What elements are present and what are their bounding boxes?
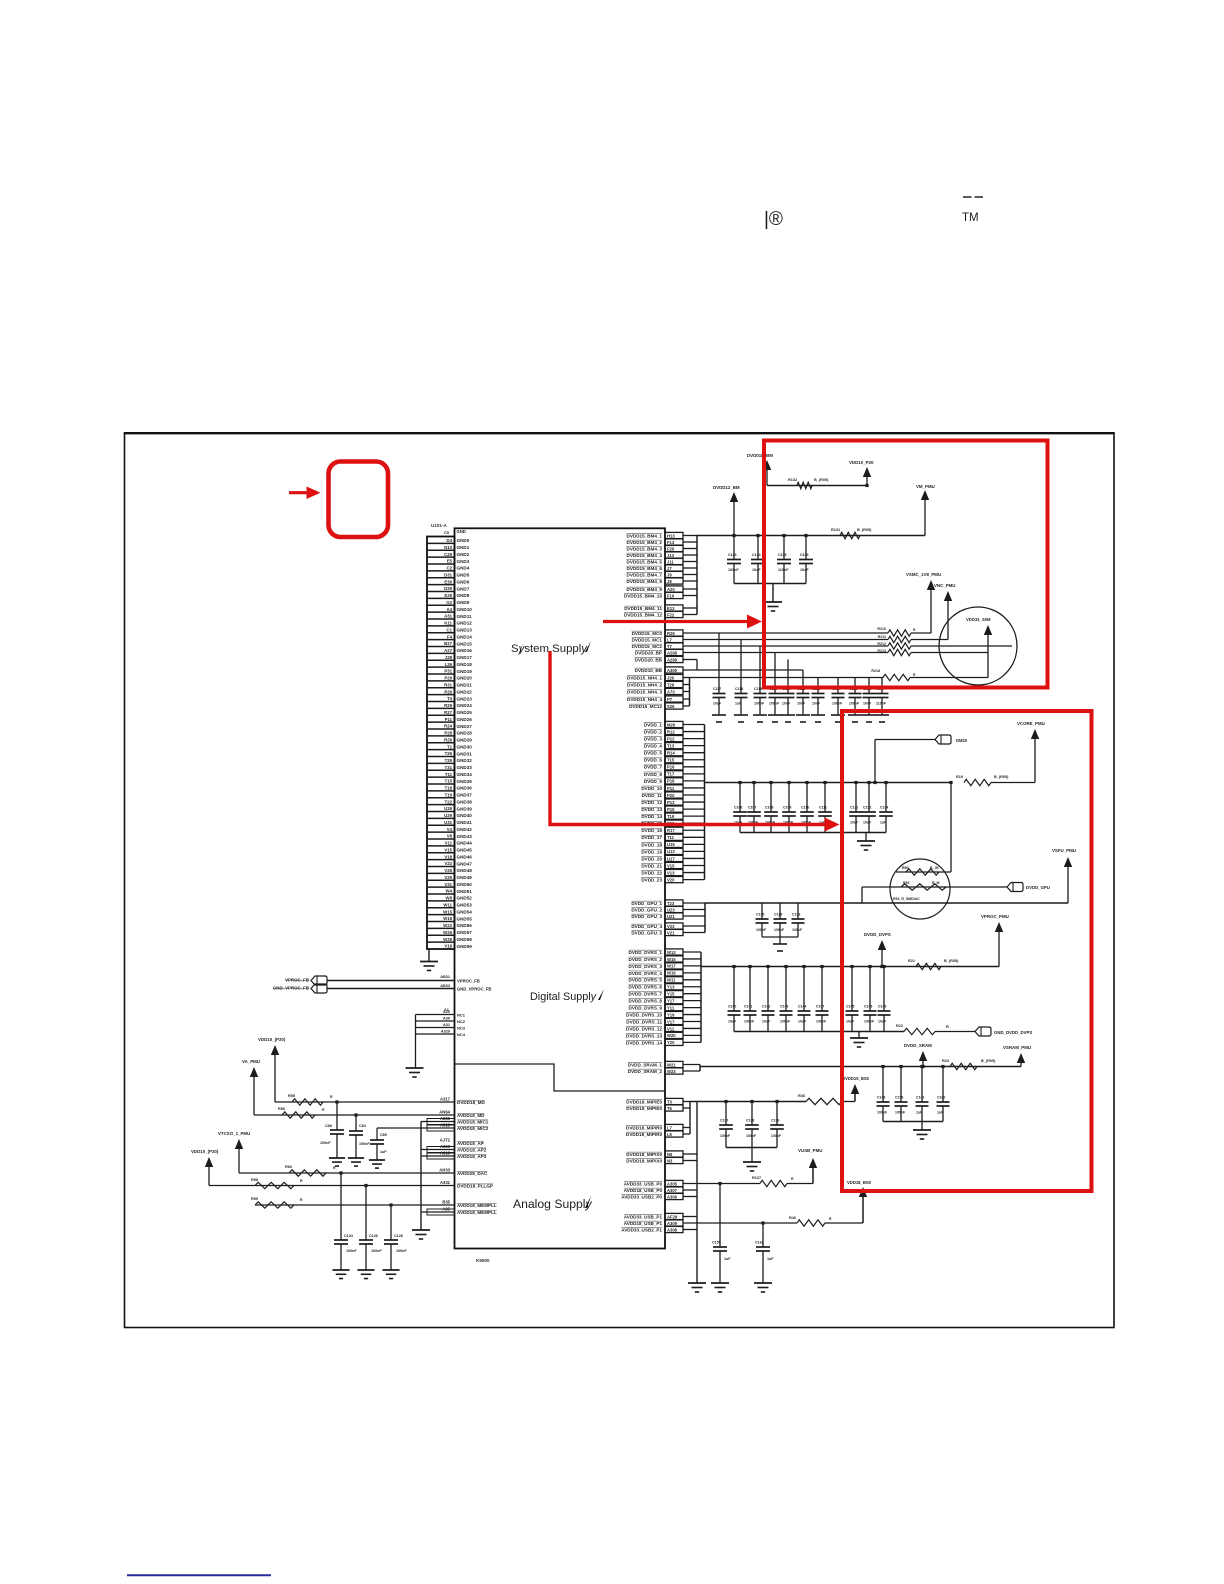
- svg-text:P11: P11: [667, 786, 675, 791]
- svg-text:NC2: NC2: [457, 1019, 466, 1024]
- svg-text:R55: R55: [288, 1094, 295, 1098]
- wire DVDD15_MC0 net: [683, 632, 888, 634]
- svg-text:T15: T15: [667, 758, 675, 763]
- red annotation polyline from System Supply into box 2: [550, 651, 840, 832]
- capacitor C123: [812, 678, 825, 716]
- svg-text:D31: D31: [444, 572, 452, 577]
- svg-text:A305: A305: [667, 1181, 678, 1186]
- svg-text:DVDD18_MIPIE0: DVDD18_MIPIE0: [626, 1106, 662, 1111]
- svg-text:GND4: GND4: [457, 566, 470, 571]
- svg-text:C124: C124: [344, 1234, 354, 1238]
- wire R36 to BS0 arrow: [842, 1089, 855, 1102]
- svg-text:GND18: GND18: [457, 662, 473, 667]
- svg-text:DVDD_DVRS_9: DVDD_DVRS_9: [629, 1006, 663, 1011]
- svg-text:C89: C89: [380, 1133, 387, 1137]
- svg-text:10uF: 10uF: [846, 1020, 855, 1024]
- svg-text:R210: R210: [877, 627, 886, 631]
- capacitor C109: [782, 783, 796, 833]
- wire DVDD_GPU bus: [705, 902, 1068, 904]
- schematic frame border: [124, 433, 1115, 1328]
- svg-text:VDD10_P20: VDD10_P20: [849, 460, 874, 465]
- svg-text:R36: R36: [798, 1094, 805, 1098]
- svg-text:D4: D4: [447, 538, 453, 543]
- svg-text:GND53: GND53: [457, 903, 473, 908]
- svg-text:C109: C109: [783, 806, 791, 810]
- svg-text:L5: L5: [667, 1132, 673, 1137]
- svg-text:DVDD_2: DVDD_2: [644, 729, 663, 734]
- svg-text:A30: A30: [443, 1017, 450, 1021]
- svg-text:VSFU_PMU: VSFU_PMU: [1052, 848, 1076, 853]
- op-amp U101-A main IC body: [455, 528, 666, 1248]
- svg-text:DVDD_4: DVDD_4: [644, 744, 663, 749]
- svg-text:AVDD18_MEMPLL: AVDD18_MEMPLL: [457, 1203, 497, 1208]
- svg-text:VTCXO_1_PMU: VTCXO_1_PMU: [218, 1131, 250, 1136]
- svg-text:100nF: 100nF: [744, 1020, 755, 1024]
- resistor R59: [251, 1197, 303, 1208]
- svg-text:100nF: 100nF: [816, 1020, 827, 1024]
- svg-text:T5: T5: [667, 1106, 673, 1111]
- svg-text:V15: V15: [667, 863, 675, 868]
- svg-text:C133: C133: [792, 913, 800, 917]
- svg-text:VPROC_FB: VPROC_FB: [285, 978, 309, 983]
- svg-text:GND15: GND15: [457, 641, 473, 646]
- svg-text:W17: W17: [667, 964, 676, 969]
- ground C162: [754, 1283, 772, 1292]
- svg-text:GND5: GND5: [457, 573, 470, 578]
- svg-text:DVDD15_BM4_12: DVDD15_BM4_12: [624, 612, 662, 617]
- svg-text:AVDD33_USB_P1: AVDD33_USB_P1: [624, 1214, 663, 1219]
- svg-text:Analog Supply: Analog Supply: [513, 1197, 593, 1211]
- junction dots left analog cluster: [335, 1100, 764, 1224]
- svg-text:E30: E30: [444, 579, 452, 584]
- wire bank E bottom rail: [734, 1032, 904, 1039]
- svg-text:DVDD18_MIPIR0: DVDD18_MIPIR0: [626, 1132, 662, 1137]
- svg-text:DVDD18_MIPIX0: DVDD18_MIPIX0: [626, 1152, 662, 1157]
- svg-text:R93: R93: [903, 881, 909, 885]
- net arrow DVD018_BM: [747, 453, 773, 486]
- svg-text:W11: W11: [667, 978, 676, 983]
- svg-text:DVDD15_NH4_4: DVDD15_NH4_4: [627, 697, 662, 702]
- svg-text:C84: C84: [359, 1124, 367, 1128]
- net arrow DVDD12_BM4: [713, 485, 740, 536]
- wire GND_VPROC_FB to IC pin AB33: [327, 984, 491, 992]
- capacitor C111: [818, 783, 832, 833]
- wire R210 to VSMC arrow: [911, 628, 931, 633]
- svg-text:GND11: GND11: [457, 614, 473, 619]
- svg-text:GND43: GND43: [457, 834, 473, 839]
- svg-text:1uF: 1uF: [735, 702, 742, 706]
- capacitor C125: [849, 678, 862, 716]
- ground bank F: [913, 1130, 931, 1139]
- ground C124: [332, 1270, 349, 1279]
- wire DVDD10_BB net: [683, 669, 803, 671]
- net arrow VSMC_1V8_PMU: [906, 572, 941, 633]
- svg-text:R59: R59: [251, 1197, 258, 1201]
- svg-text:DVDD_GPU: DVDD_GPU: [1026, 885, 1050, 890]
- net arrow VUSB_PMU: [798, 1148, 822, 1184]
- svg-text:GND22: GND22: [457, 689, 473, 694]
- capacitor C138: [745, 1102, 759, 1148]
- svg-text:A29: A29: [443, 1010, 450, 1014]
- svg-text:R90: R90: [902, 866, 908, 870]
- svg-text:GND0: GND0: [457, 538, 470, 543]
- wire VDD10 to PLLGP pin: [209, 1185, 455, 1187]
- svg-text:GND58: GND58: [457, 937, 473, 942]
- svg-text:V23: V23: [667, 924, 675, 929]
- svg-text:C141: C141: [744, 1005, 752, 1009]
- svg-text:100nF: 100nF: [346, 1249, 357, 1253]
- svg-text:C140: C140: [728, 1005, 736, 1009]
- svg-text:C141: C141: [916, 1096, 924, 1100]
- svg-text:A31: A31: [444, 614, 452, 619]
- wires NC1-NC4 pins: [416, 1010, 466, 1037]
- svg-text:L26: L26: [445, 662, 453, 667]
- ground for C119: [753, 715, 767, 722]
- capacitor C116: [799, 536, 813, 584]
- svg-text:VA_PMU: VA_PMU: [242, 1059, 260, 1064]
- red annotation box 1 top right: [764, 441, 1048, 688]
- ground for C125: [848, 715, 862, 722]
- label Analog Supply: [513, 1196, 593, 1211]
- svg-text:DVDD15_NH4_3: DVDD15_NH4_3: [627, 689, 662, 694]
- resistor R90: [902, 866, 939, 875]
- svg-text:NC1: NC1: [457, 1013, 466, 1018]
- svg-text:DVDD_DVRS_1: DVDD_DVRS_1: [629, 950, 663, 955]
- ground for C122: [796, 715, 810, 722]
- resistor R137: [752, 1176, 794, 1187]
- svg-text:AVDD18_AP: AVDD18_AP: [457, 1141, 484, 1146]
- svg-text:V21: V21: [667, 930, 675, 935]
- svg-text:C106: C106: [734, 806, 742, 810]
- capacitor C132: [862, 783, 876, 833]
- svg-text:R218: R218: [871, 669, 880, 673]
- svg-text:100nF: 100nF: [769, 702, 780, 706]
- svg-text:DVDD12_BM: DVDD12_BM: [713, 485, 740, 490]
- svg-text:100nF: 100nF: [774, 928, 785, 932]
- svg-text:R56: R56: [278, 1107, 285, 1111]
- wire analog collector to ground: [421, 1122, 455, 1231]
- resistor R19: [956, 775, 1009, 786]
- svg-text:W29: W29: [443, 937, 452, 942]
- svg-text:DVDD20_BP: DVDD20_BP: [635, 650, 662, 655]
- svg-text:P31: P31: [444, 669, 452, 674]
- svg-text:F22: F22: [667, 612, 675, 617]
- svg-text:C118: C118: [735, 687, 743, 691]
- svg-text:R29: R29: [444, 703, 452, 708]
- svg-text:GND8: GND8: [457, 593, 470, 598]
- svg-text:DVDD_14: DVDD_14: [641, 814, 662, 819]
- wire R211 to VNC arrow: [911, 639, 948, 641]
- svg-text:GND_DVDD_DVPS: GND_DVDD_DVPS: [994, 1030, 1032, 1035]
- svg-text:J9: J9: [667, 572, 672, 577]
- svg-text:GND7: GND7: [457, 586, 470, 591]
- svg-text:N3: N3: [667, 1158, 673, 1163]
- svg-text:DVDD_7: DVDD_7: [644, 765, 663, 770]
- svg-text:10nF: 10nF: [812, 702, 821, 706]
- svg-text:T19: T19: [445, 792, 453, 797]
- capacitor C126: [863, 678, 876, 716]
- red annotation rounded box: [329, 462, 389, 538]
- wire AVDD18_USB_P1 to resistor: [683, 1222, 797, 1224]
- svg-text:W15: W15: [443, 909, 452, 914]
- svg-text:P7: P7: [667, 697, 673, 702]
- svg-text:VM_PMU: VM_PMU: [916, 484, 935, 489]
- svg-text:P13: P13: [667, 800, 675, 805]
- svg-text:DVDD15_BM4_9: DVDD15_BM4_9: [627, 587, 663, 592]
- svg-text:C143: C143: [780, 1005, 788, 1009]
- net arrow VDD10_P20 lower: [191, 1149, 219, 1186]
- svg-text:DM20: DM20: [956, 738, 968, 743]
- resistor R60: [285, 1165, 338, 1176]
- svg-text:N10: N10: [444, 545, 452, 550]
- wire R19 node to R90: [896, 783, 951, 873]
- svg-text:A20: A20: [667, 587, 675, 592]
- svg-text:1uF: 1uF: [380, 1150, 387, 1154]
- IC section divider step: [455, 1064, 666, 1091]
- resistor R21: [908, 959, 959, 970]
- svg-text:100nF: 100nF: [895, 1111, 906, 1115]
- svg-text:GND6: GND6: [457, 579, 470, 584]
- svg-text:T31: T31: [445, 765, 453, 770]
- svg-text:GND3: GND3: [457, 559, 470, 564]
- svg-text:T13: T13: [667, 743, 675, 748]
- svg-text:DVDD_20: DVDD_20: [641, 856, 662, 861]
- wire SRAM bus: [700, 1066, 1021, 1068]
- svg-text:A31: A31: [443, 1023, 450, 1027]
- svg-text:GND26: GND26: [457, 717, 473, 722]
- capacitor C147: [816, 967, 829, 1032]
- svg-text:T11: T11: [445, 772, 453, 777]
- svg-text:T26: T26: [445, 751, 453, 756]
- svg-text:110nF: 110nF: [876, 702, 887, 706]
- capacitor C162: [937, 1067, 950, 1122]
- svg-text:L7: L7: [667, 1125, 673, 1130]
- svg-text:DVDD_13: DVDD_13: [641, 807, 662, 812]
- svg-text:Y13: Y13: [667, 985, 675, 990]
- svg-text:Y20: Y20: [667, 1040, 675, 1045]
- svg-text:A4: A4: [447, 607, 453, 612]
- wire NH4 collector: [683, 678, 690, 707]
- svg-text:R17: R17: [667, 828, 675, 833]
- svg-text:GND51: GND51: [457, 889, 473, 894]
- svg-text:C29: C29: [444, 552, 452, 557]
- trademark symbol (R): [764, 209, 783, 230]
- capacitor C89: [370, 1133, 387, 1160]
- IC right pins DVDD_DVRS_1..14: [626, 949, 701, 1046]
- IC right pins DVDD18_MIPI group: [626, 1098, 683, 1163]
- svg-text:GND46: GND46: [457, 854, 473, 859]
- capacitor C128 left: [384, 1205, 407, 1270]
- svg-text:B35: B35: [442, 1199, 450, 1204]
- wire R212 right: [911, 645, 1012, 647]
- svg-text:DVDD18_MIPIE0: DVDD18_MIPIE0: [626, 1099, 662, 1104]
- svg-text:S26: S26: [667, 704, 675, 709]
- ground for C117: [712, 715, 726, 722]
- svg-text:C162: C162: [755, 1241, 764, 1245]
- wire DVDD15_MC2 net: [683, 645, 888, 647]
- svg-text:W11: W11: [443, 902, 452, 907]
- svg-text:VPROC_FB: VPROC_FB: [457, 979, 480, 984]
- svg-text:R58: R58: [251, 1178, 258, 1182]
- svg-text:A306: A306: [667, 1194, 678, 1199]
- svg-text:C137: C137: [720, 1119, 728, 1123]
- svg-text:W20: W20: [667, 1033, 676, 1038]
- svg-text:B_(R05): B_(R05): [814, 478, 829, 482]
- net arrow VCORE_PMU: [1017, 721, 1045, 783]
- svg-text:100nF: 100nF: [720, 1134, 731, 1138]
- svg-text:AVDD18_MIC1: AVDD18_MIC1: [457, 1120, 489, 1125]
- svg-text:GND30: GND30: [457, 744, 473, 749]
- svg-text:DVDD_DVRS_6: DVDD_DVRS_6: [629, 985, 663, 990]
- svg-text:DVDD_SRAM_2: DVDD_SRAM_2: [628, 1069, 663, 1074]
- svg-text:DVDD15_BM4_5: DVDD15_BM4_5: [627, 559, 663, 564]
- svg-text:DVDD_DVRS_11: DVDD_DVRS_11: [626, 1019, 662, 1024]
- svg-text:DVDD15_BM4_7: DVDD15_BM4_7: [627, 572, 663, 577]
- svg-text:GND56: GND56: [457, 923, 473, 928]
- capacitor C141: [744, 967, 757, 1032]
- svg-text:GND54: GND54: [457, 909, 473, 914]
- svg-text:VSRAM_PMU: VSRAM_PMU: [1003, 1045, 1031, 1050]
- svg-text:VPROC_PMU: VPROC_PMU: [981, 914, 1009, 919]
- svg-text:Digital Supply: Digital Supply: [530, 991, 597, 1003]
- svg-text:A308: A308: [667, 1227, 678, 1232]
- svg-text:T4: T4: [447, 696, 453, 701]
- svg-text:100nF: 100nF: [359, 1142, 370, 1146]
- svg-text:T29: T29: [445, 758, 453, 763]
- svg-text:10uF: 10uF: [752, 568, 761, 572]
- ground C159: [711, 1283, 729, 1292]
- capacitor C118: [735, 640, 748, 716]
- ground bank G: [743, 1162, 761, 1171]
- IC right pins DVDD_GPU_1..5: [631, 900, 705, 936]
- svg-text:AVDD18_AP2: AVDD18_AP2: [457, 1148, 487, 1153]
- svg-text:100nF: 100nF: [396, 1249, 407, 1253]
- wire bank C bottom rail: [740, 833, 886, 842]
- resistor R93: [893, 881, 946, 901]
- svg-text:100nF: 100nF: [864, 1020, 875, 1024]
- net arrow DVDD_SRAM: [904, 1043, 932, 1067]
- svg-text:Y15: Y15: [667, 992, 675, 997]
- capacitor C144: [798, 967, 811, 1032]
- svg-text:DVDD_GPU_4: DVDD_GPU_4: [631, 924, 662, 929]
- pin C5 label: [444, 529, 466, 535]
- svg-text:DVDD_DVRS_3: DVDD_DVRS_3: [629, 964, 663, 969]
- svg-text:GND55: GND55: [457, 916, 473, 921]
- svg-text:P28: P28: [444, 731, 452, 736]
- svg-text:1uF: 1uF: [937, 1111, 944, 1115]
- IC right pins DVDD15_BM4_1..12: [624, 532, 697, 617]
- document hyperlink underline: [127, 1574, 271, 1576]
- svg-text:R137: R137: [752, 1176, 761, 1180]
- svg-text:DVDD_SRAM_1: DVDD_SRAM_1: [628, 1062, 663, 1067]
- svg-text:GND_VPROC_FB: GND_VPROC_FB: [457, 987, 491, 992]
- svg-text:W26: W26: [443, 930, 452, 935]
- svg-text:GND2: GND2: [457, 552, 470, 557]
- wire MIC2 to C89: [377, 1128, 421, 1139]
- svg-text:R213: R213: [877, 649, 886, 653]
- svg-text:DVDD_10: DVDD_10: [641, 786, 662, 791]
- svg-text:10nF: 10nF: [863, 702, 872, 706]
- svg-text:U23: U23: [667, 907, 675, 912]
- IC part number K5500: [476, 1258, 490, 1263]
- svg-text:W8: W8: [446, 896, 453, 901]
- svg-text:W13: W13: [667, 950, 676, 955]
- capacitor C133: [792, 903, 805, 937]
- svg-text:R_: R_: [333, 1166, 338, 1170]
- svg-text:GND32: GND32: [457, 758, 473, 763]
- wire MIPI bus: [690, 1101, 806, 1103]
- svg-text:100nF: 100nF: [780, 1020, 791, 1024]
- svg-text:VUSB_PMU: VUSB_PMU: [798, 1148, 822, 1153]
- svg-text:U101-A: U101-A: [431, 523, 448, 528]
- svg-text:10uF: 10uF: [713, 702, 722, 706]
- svg-text:A329: A329: [441, 1030, 450, 1034]
- svg-text:R14: R14: [667, 751, 675, 756]
- wire VTCXO to DAC pin: [239, 1172, 455, 1174]
- svg-text:AB33: AB33: [440, 984, 450, 988]
- ground below GND pin stack: [420, 962, 438, 971]
- svg-text:AVDD18_USB_P0: AVDD18_USB_P0: [624, 1188, 663, 1193]
- svg-text:V20: V20: [667, 877, 675, 882]
- connector tag DM20: [875, 735, 968, 783]
- svg-text:TM: TM: [962, 212, 979, 224]
- capacitor C115: [777, 536, 791, 584]
- capacitor C88: [320, 1102, 344, 1158]
- junction dots bank E on DVRS bus: [732, 965, 885, 968]
- svg-text:E5: E5: [447, 559, 453, 564]
- resistor R56: [278, 1107, 325, 1118]
- svg-text:DVDD_GPU_5: DVDD_GPU_5: [631, 930, 662, 935]
- svg-text:DVDD_16: DVDD_16: [641, 828, 662, 833]
- svg-text:10uF: 10uF: [798, 1020, 807, 1024]
- capacitor C127: [876, 678, 889, 716]
- svg-text:H13: H13: [667, 533, 675, 538]
- svg-text:DVDD_18: DVDD_18: [641, 842, 662, 847]
- capacitor C122: [797, 670, 810, 715]
- capacitor C117: [713, 633, 726, 715]
- IC reference designator U101-A: [431, 523, 448, 528]
- svg-text:B_(R05): B_(R05): [857, 528, 872, 532]
- svg-text:DVDD20_BB: DVDD20_BB: [635, 657, 663, 662]
- svg-text:AVDD18_MIC2: AVDD18_MIC2: [457, 1126, 489, 1131]
- wire DVDD20_BB net: [683, 660, 697, 671]
- svg-text:GND29: GND29: [457, 738, 473, 743]
- svg-text:Y17: Y17: [667, 998, 675, 1003]
- wire VA to AVDD18_MD pin: [254, 1114, 455, 1116]
- wire DVDD15_MC1 net: [683, 639, 888, 641]
- svg-text:C126: C126: [369, 1234, 378, 1238]
- svg-text:1uF: 1uF: [916, 1111, 923, 1115]
- wire VDD10 to DVDD18_MD pin: [275, 1101, 455, 1103]
- capacitor C119: [754, 646, 767, 715]
- svg-text:C111: C111: [819, 806, 827, 810]
- svg-text:GND38: GND38: [457, 799, 473, 804]
- ground for NC pins: [406, 1068, 424, 1077]
- svg-text:A331: A331: [440, 1180, 451, 1185]
- svg-text:10uF: 10uF: [850, 821, 859, 825]
- ground MIPI vertical: [688, 1283, 706, 1292]
- svg-text:100nF: 100nF: [371, 1249, 382, 1253]
- svg-text:GND35: GND35: [457, 779, 473, 784]
- svg-text:AVDD18_USB_P1: AVDD18_USB_P1: [624, 1221, 663, 1226]
- svg-text:VDD10_(P20): VDD10_(P20): [258, 1037, 286, 1042]
- svg-text:R19: R19: [956, 775, 963, 779]
- svg-text:DVDD_DVRS_10: DVDD_DVRS_10: [626, 1012, 662, 1017]
- svg-text:J28: J28: [445, 655, 453, 660]
- svg-text:R212: R212: [877, 642, 886, 646]
- svg-text:GND24: GND24: [457, 703, 473, 708]
- svg-text:E13: E13: [667, 606, 675, 611]
